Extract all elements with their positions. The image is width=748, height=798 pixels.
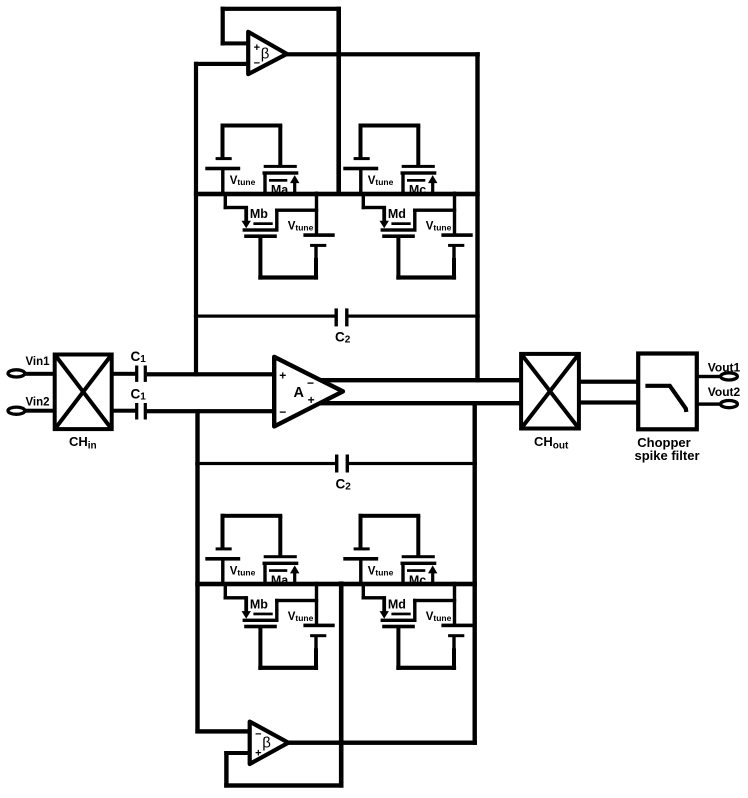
capacitor C1 (upper) xyxy=(135,366,147,382)
node: lower right bus xyxy=(473,401,477,745)
svg-text:Vin2: Vin2 xyxy=(25,397,49,409)
input terminal Vin1 xyxy=(8,370,25,377)
wire: source loop of Mb xyxy=(258,236,318,279)
svg-text:Vtune: Vtune xyxy=(426,221,452,233)
wire: bottom beta + input xyxy=(224,751,252,755)
svg-text:Vin1: Vin1 xyxy=(25,356,50,368)
svg-text:−: − xyxy=(307,376,314,390)
MOS capacitor (right Vtune cap) of Mb xyxy=(303,582,334,669)
wire: bottom beta output xyxy=(286,741,477,745)
wire: top beta feedback loop (to + input) xyxy=(221,7,341,46)
chopper CHin xyxy=(55,355,112,430)
MOS capacitor (left Vtune cap) of Mc xyxy=(343,547,378,585)
node: upper right bus xyxy=(475,52,479,382)
chopper spike filter box xyxy=(638,354,697,430)
output terminal Vout2 xyxy=(721,401,738,408)
wire: bottom beta - input xyxy=(195,729,252,733)
op-amp beta (top) xyxy=(248,32,287,74)
wire: source loop of Md xyxy=(396,236,456,279)
op-amp beta (bottom) xyxy=(250,722,289,764)
input terminal Vin2 xyxy=(8,407,25,414)
output terminal Vout1 xyxy=(721,373,738,380)
svg-text:−: − xyxy=(255,729,261,741)
wire: Vin1 to CHin xyxy=(24,372,55,376)
wire: CHin to C1 (upper) xyxy=(112,372,136,376)
svg-text:Ma: Ma xyxy=(271,183,289,197)
wire: filter to Vout2 xyxy=(697,402,723,405)
MOS capacitor (left Vtune cap) of Mc xyxy=(343,157,378,195)
capacitor C2 (top) xyxy=(194,308,480,326)
svg-text:+: + xyxy=(255,748,261,760)
transistor Mc xyxy=(401,165,438,196)
wire: top cell rail xyxy=(194,192,480,197)
wire: A output (lower) to CHout xyxy=(300,401,521,405)
svg-text:+: + xyxy=(308,393,315,407)
MOS capacitor (left Vtune cap) of Ma xyxy=(205,157,240,195)
svg-text:Vtune: Vtune xyxy=(368,175,394,187)
svg-text:Ma: Ma xyxy=(271,574,289,588)
svg-text:Mc: Mc xyxy=(409,183,426,197)
transistor Mc xyxy=(401,555,438,586)
wire: top beta + input xyxy=(221,41,251,45)
svg-text:Vout2: Vout2 xyxy=(708,385,741,399)
svg-text:A: A xyxy=(294,385,305,401)
wire: gate loop of Mc xyxy=(359,124,421,167)
svg-text:Vtune: Vtune xyxy=(230,565,256,577)
chopper CHout xyxy=(521,354,579,429)
MOS capacitor (right Vtune cap) of Mb xyxy=(303,192,334,279)
wire: CHout to filter (upper) xyxy=(579,380,640,384)
wire: gate loop of Ma xyxy=(221,514,283,557)
wire: A output (upper) to CHout xyxy=(300,378,521,382)
svg-text:−: − xyxy=(279,405,286,419)
svg-text:+: + xyxy=(254,42,260,54)
node: lower left bus xyxy=(195,409,199,733)
wire: C1 to A - input xyxy=(147,409,276,413)
svg-text:Md: Md xyxy=(388,207,406,221)
transistor Md xyxy=(362,582,457,628)
svg-text:β: β xyxy=(261,46,270,63)
capacitor C2 (bottom) xyxy=(195,455,477,473)
wire: gate loop of Mc xyxy=(359,514,421,557)
capacitor C1 (lower) xyxy=(135,403,147,420)
svg-text:spike filter: spike filter xyxy=(634,448,699,463)
svg-text:Md: Md xyxy=(388,597,406,611)
wire: bottom beta feedback loop (to + input) xyxy=(224,751,343,788)
wire: source loop of Md xyxy=(396,627,456,670)
MOS capacitor (left Vtune cap) of Ma xyxy=(205,547,240,585)
svg-text:β: β xyxy=(262,735,271,752)
wire: top beta - input xyxy=(194,62,251,66)
node: lower middle bus (bottom rail to bottom loop) xyxy=(339,581,344,787)
svg-text:Vtune: Vtune xyxy=(426,611,452,623)
svg-text:Mc: Mc xyxy=(409,574,426,588)
svg-text:Mb: Mb xyxy=(250,597,268,611)
transistor Md xyxy=(362,192,457,238)
wire: gate loop of Ma xyxy=(221,124,283,167)
MOS capacitor (right Vtune cap) of Md xyxy=(441,582,472,669)
svg-text:−: − xyxy=(254,58,260,70)
svg-text:Vtune: Vtune xyxy=(288,611,314,623)
svg-text:Vtune: Vtune xyxy=(288,221,314,233)
transistor Mb xyxy=(224,192,319,238)
svg-text:Vtune: Vtune xyxy=(368,565,394,577)
svg-text:Vtune: Vtune xyxy=(230,175,256,187)
MOS capacitor (right Vtune cap) of Md xyxy=(441,192,472,279)
svg-text:Mb: Mb xyxy=(250,207,268,221)
node: upper left bus xyxy=(194,62,198,377)
transistor Ma xyxy=(263,165,300,196)
transistor Mb xyxy=(224,582,319,628)
wire: source loop of Mb xyxy=(258,627,318,670)
svg-text:+: + xyxy=(279,369,286,383)
wire: CHin to C1 (lower) xyxy=(112,409,136,413)
transistor Ma xyxy=(263,555,300,586)
op-amp A (main amplifier) xyxy=(274,357,343,427)
node: upper middle bus (top loop to top rail) xyxy=(336,7,341,196)
label Chopper spike filter xyxy=(634,435,699,463)
wire: Vin2 to CHin xyxy=(24,409,55,413)
wire: bottom cell rail xyxy=(195,582,477,587)
wire: top beta output xyxy=(284,52,480,56)
wire: filter to Vout1 xyxy=(697,375,723,378)
wire: CHout to filter (lower) xyxy=(579,400,640,404)
wire: C1 to A + input xyxy=(147,372,276,376)
